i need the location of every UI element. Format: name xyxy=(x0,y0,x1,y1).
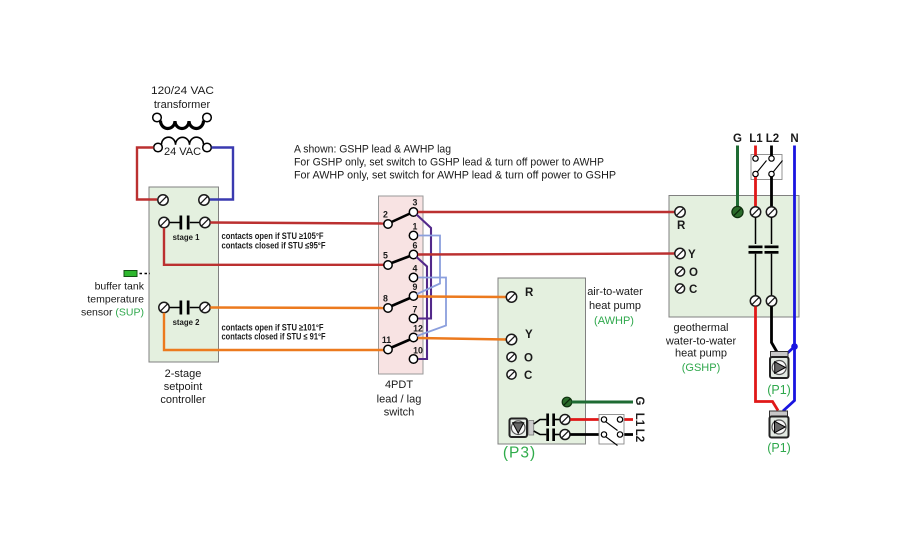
wire L2 to pump P1 upper (black) xyxy=(772,306,778,352)
jumper 3 to 7 (violet) xyxy=(417,215,432,319)
jumper 1 to 9 (light blue) xyxy=(417,236,440,295)
4PDT pole 4: common 11, throws 12 and 10 xyxy=(382,324,423,364)
jumper 6 to 10 (violet) xyxy=(417,257,428,359)
svg-text:temperature: temperature xyxy=(87,294,144,306)
svg-text:controller: controller xyxy=(160,394,206,406)
wire stage2 left down to switch common 11 (orange) xyxy=(164,313,384,350)
GSHP terminal Y xyxy=(675,248,696,261)
wire throw 6 to GSHP Y (red) xyxy=(418,254,675,255)
stage 1 contact xyxy=(159,216,210,243)
svg-text:L1: L1 xyxy=(749,133,763,145)
svg-text:C: C xyxy=(524,370,532,382)
svg-text:R: R xyxy=(525,287,534,299)
stage 1 annotation xyxy=(222,231,326,251)
capacitor C1 xyxy=(749,246,763,254)
disconnect L1 contacts xyxy=(753,156,767,177)
wire N to pump P1 lower (blue) xyxy=(783,347,795,412)
wire N (blue) xyxy=(793,146,796,347)
svg-text:C: C xyxy=(689,284,697,296)
wire throw 9 to AWHP R (orange) xyxy=(418,295,507,298)
svg-text:4PDT: 4PDT xyxy=(385,379,413,391)
AWHP green common dot xyxy=(562,397,572,407)
P3 contact leads xyxy=(534,420,547,435)
GSHP L1 internal lead lower xyxy=(755,254,757,296)
svg-text:R: R xyxy=(677,220,686,232)
stage 2 contact xyxy=(159,301,210,328)
sensor dashed link xyxy=(140,273,151,275)
svg-text:4: 4 xyxy=(413,264,418,274)
wire 24VAC blue (transformer to controller) xyxy=(209,148,233,200)
svg-text:switch: switch xyxy=(384,407,415,419)
4PDT pole 2: common 5, throws 6 and 4 xyxy=(383,241,418,282)
svg-text:(P3): (P3) xyxy=(503,445,536,462)
AWHP power terminal L1 xyxy=(560,415,570,425)
svg-text:120/24 VAC: 120/24 VAC xyxy=(151,85,214,97)
svg-text:9: 9 xyxy=(413,282,418,292)
AWHP disconnect switch box xyxy=(599,415,624,446)
svg-text:For GSHP only, set switch to G: For GSHP only, set switch to GSHP lead &… xyxy=(294,157,604,169)
pump P1 lower xyxy=(770,411,789,438)
AWHP power terminal L2 xyxy=(560,430,570,440)
svg-text:transformer: transformer xyxy=(154,99,211,111)
controller power terminal right xyxy=(199,195,209,205)
svg-text:5: 5 xyxy=(383,251,388,261)
jumper 4 to 12 (light blue) xyxy=(417,278,446,337)
wire L1 red upper xyxy=(754,146,757,207)
AWHP terminal Y xyxy=(506,329,533,345)
AWHP terminal R xyxy=(506,287,534,302)
svg-text:(GSHP): (GSHP) xyxy=(682,362,721,374)
svg-text:O: O xyxy=(689,267,698,279)
disconnect L2 contacts xyxy=(769,156,783,177)
svg-text:2-stage: 2-stage xyxy=(165,368,202,380)
wire 24VAC red (transformer to controller) xyxy=(137,148,157,200)
wire N to pump P1 upper (blue) xyxy=(787,347,795,355)
svg-text:11: 11 xyxy=(382,335,391,345)
svg-text:2: 2 xyxy=(383,210,388,220)
svg-text:stage 2: stage 2 xyxy=(173,318,201,327)
AWHP label xyxy=(587,286,643,327)
wire AWHP L2 black xyxy=(570,433,633,436)
wire stage1 right to switch common 2 (red) xyxy=(210,223,384,224)
wire throw 3 to GSHP R (red) xyxy=(418,211,675,213)
AWHP terminal O xyxy=(507,352,533,364)
wire stage2 right to switch common 8 (orange) xyxy=(210,306,384,309)
GSHP L2 internal lead xyxy=(771,217,773,244)
GSHP terminal C xyxy=(675,284,697,296)
wire throw 12 to AWHP Y (orange) xyxy=(418,338,507,340)
svg-text:For AWHP only, set switch for: For AWHP only, set switch for AWHP lead … xyxy=(294,170,616,182)
pump P1 upper xyxy=(770,352,789,379)
svg-text:7: 7 xyxy=(413,305,418,315)
svg-text:contacts closed if STU ≤95°F: contacts closed if STU ≤95°F xyxy=(222,241,326,251)
svg-text:(AWHP): (AWHP) xyxy=(594,315,634,327)
buffer tank temperature sensor xyxy=(124,271,137,277)
svg-text:N: N xyxy=(790,133,798,145)
svg-text:L2: L2 xyxy=(766,133,779,145)
svg-text:contacts open if STU ≥105°F: contacts open if STU ≥105°F xyxy=(222,231,324,241)
sensor label xyxy=(81,281,145,319)
GSHP L2 top terminal xyxy=(766,207,776,217)
svg-text:contacts closed if STU ≤ 91°F: contacts closed if STU ≤ 91°F xyxy=(222,332,326,342)
4PDT lead/lag switch box xyxy=(379,196,424,374)
svg-text:12: 12 xyxy=(413,324,423,334)
svg-text:L2: L2 xyxy=(633,429,645,442)
2-stage setpoint controller box xyxy=(149,187,219,362)
wire AWHP L1 red xyxy=(570,418,633,421)
svg-text:3: 3 xyxy=(413,198,418,208)
node N junction dot xyxy=(791,343,798,350)
svg-text:Y: Y xyxy=(688,249,696,261)
GSHP L2 internal lead lower xyxy=(771,254,773,296)
svg-text:L1: L1 xyxy=(633,413,645,427)
transformer T1 primary winding xyxy=(153,113,212,128)
svg-text:air-to-water: air-to-water xyxy=(587,286,643,298)
wire stage1 left down to switch common 5 (red) xyxy=(164,228,384,265)
wire L1 to pump P1 lower (red) xyxy=(756,306,779,410)
GSHP L1 bottom terminal xyxy=(750,296,760,306)
svg-text:geothermal: geothermal xyxy=(673,322,728,334)
svg-text:O: O xyxy=(524,353,533,365)
svg-text:heat pump: heat pump xyxy=(589,300,641,312)
AWHP terminal C xyxy=(507,370,532,382)
svg-text:buffer tank: buffer tank xyxy=(95,281,145,293)
svg-text:sensor (SUP): sensor (SUP) xyxy=(81,307,144,319)
svg-text:lead / lag: lead / lag xyxy=(377,394,422,406)
svg-text:heat pump: heat pump xyxy=(675,348,727,360)
P3 contact L1 xyxy=(546,414,560,427)
svg-text:(P1): (P1) xyxy=(767,441,791,455)
GSHP disconnect switch box xyxy=(751,155,782,180)
top labels G L1 L2 N xyxy=(733,133,799,145)
capacitor C2 xyxy=(765,246,779,254)
GSHP L1 internal lead xyxy=(755,217,757,244)
pump P3 coupling xyxy=(529,421,534,436)
svg-text:8: 8 xyxy=(383,294,388,304)
transformer T1 secondary winding xyxy=(154,137,212,152)
4PDT pole 3: common 8, throws 9 and 7 xyxy=(383,282,418,323)
wire G (green) xyxy=(736,146,739,207)
note text block xyxy=(294,144,616,182)
svg-text:G: G xyxy=(633,397,645,406)
GSHP L1 top terminal xyxy=(750,207,760,217)
svg-text:A shown: GSHP lead & AWHP lag: A shown: GSHP lead & AWHP lag xyxy=(294,144,451,156)
controller power terminal left xyxy=(158,195,168,205)
svg-text:24 VAC: 24 VAC xyxy=(164,146,201,158)
wire AWHP G (green) xyxy=(572,401,634,404)
GSHP terminal O xyxy=(675,267,698,279)
GSHP green common dot xyxy=(732,206,743,217)
GSHP L2 bottom terminal xyxy=(766,296,776,306)
svg-text:stage 1: stage 1 xyxy=(173,233,201,242)
pump P3 xyxy=(510,419,528,438)
svg-text:setpoint: setpoint xyxy=(164,381,203,393)
wire L2 black upper xyxy=(770,146,773,207)
4PDT pole 1: common 2, throws 3 and 1 xyxy=(383,198,418,240)
P3 contact L2 xyxy=(546,429,560,442)
svg-text:6: 6 xyxy=(413,241,418,251)
svg-text:(P1): (P1) xyxy=(767,383,791,397)
svg-text:10: 10 xyxy=(413,346,423,356)
controller label xyxy=(160,368,206,406)
svg-text:Y: Y xyxy=(525,329,533,341)
svg-text:1: 1 xyxy=(413,222,418,232)
transformer T1 label xyxy=(151,85,214,111)
4PDT label xyxy=(377,379,422,419)
svg-text:water-to-water: water-to-water xyxy=(665,336,737,348)
stage 2 annotation xyxy=(222,323,326,342)
GSHP terminal R xyxy=(675,207,686,232)
air-to-water heat pump box xyxy=(498,278,586,444)
svg-text:G: G xyxy=(733,133,742,145)
GSHP label xyxy=(665,322,737,374)
geothermal heat pump box xyxy=(669,196,799,318)
